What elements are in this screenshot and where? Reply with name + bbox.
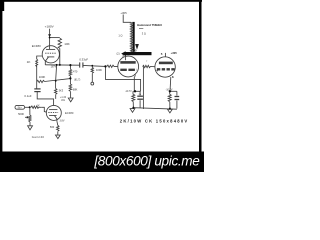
- svg-text:3.8V: 3.8V: [60, 120, 65, 123]
- svg-text:+305: +305: [120, 11, 127, 15]
- svg-text:68K: 68K: [73, 88, 78, 92]
- svg-text:ECF80: ECF80: [32, 44, 41, 48]
- svg-text:500K: 500K: [18, 112, 24, 116]
- svg-text:+305: +305: [130, 48, 137, 52]
- svg-text:+180V: +180V: [45, 25, 55, 29]
- svg-text:(2): (2): [116, 53, 119, 56]
- svg-text:-10.7V: -10.7V: [125, 91, 132, 93]
- svg-text:100K: 100K: [39, 75, 46, 79]
- svg-text:0.33uF: 0.33uF: [79, 57, 88, 61]
- svg-text:[800x600] upic.me: [800x600] upic.me: [93, 153, 200, 168]
- svg-text:+305: +305: [171, 51, 178, 55]
- svg-text:3 Ω: 3 Ω: [142, 32, 146, 36]
- svg-text:2K/10W CK 150x8480V: 2K/10W CK 150x8480V: [120, 119, 189, 124]
- svg-text:-10.7V: -10.7V: [166, 90, 173, 92]
- svg-text:(81.7): (81.7): [74, 78, 80, 81]
- svg-text:ECF80: ECF80: [65, 111, 74, 115]
- svg-text:3K3: 3K3: [59, 88, 64, 92]
- svg-text:Gain=40: Gain=40: [32, 135, 45, 139]
- svg-text:470: 470: [73, 70, 78, 74]
- svg-text:Hammond 756HEX: Hammond 756HEX: [137, 23, 162, 27]
- svg-text:IN>: IN>: [18, 105, 23, 109]
- svg-text:0.1uF: 0.1uF: [24, 94, 31, 98]
- svg-text:100K: 100K: [96, 68, 102, 72]
- svg-text:1 Ω: 1 Ω: [118, 33, 122, 37]
- svg-text:*: *: [146, 61, 147, 64]
- svg-text:10K: 10K: [64, 42, 70, 46]
- svg-text:187V: 187V: [51, 66, 57, 69]
- svg-text:560: 560: [50, 125, 55, 129]
- svg-text:1K: 1K: [37, 104, 40, 107]
